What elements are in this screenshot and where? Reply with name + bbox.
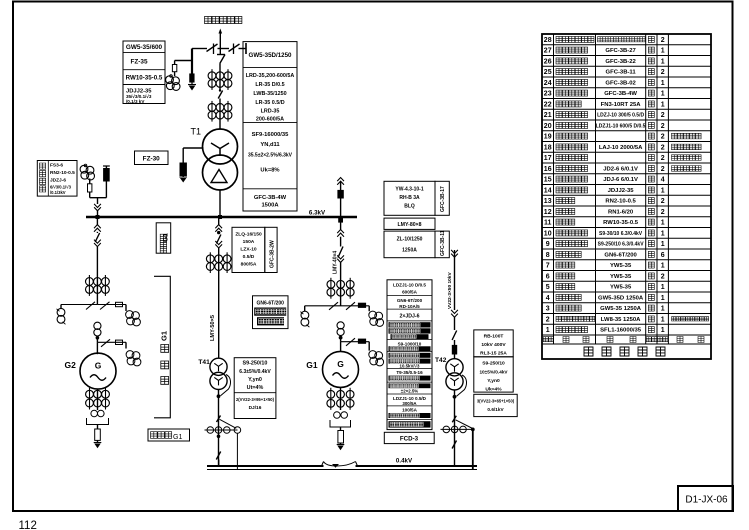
instrument circles on G1 line xyxy=(337,322,344,340)
svg-text:3: 3 xyxy=(546,306,550,313)
svg-text:S9-250/10: S9-250/10 xyxy=(243,361,268,367)
svg-text:JDZJ-6: JDZJ-6 xyxy=(50,178,66,184)
svg-text:Uk=8%: Uk=8% xyxy=(260,168,279,174)
svg-text:LMY-50×5: LMY-50×5 xyxy=(210,315,216,341)
svg-text:ZL-10/1250: ZL-10/1250 xyxy=(397,237,423,243)
arrester FS3-6 xyxy=(103,166,110,198)
svg-text:25: 25 xyxy=(544,69,552,76)
svg-text:1: 1 xyxy=(661,327,665,334)
svg-text:FS3-6: FS3-6 xyxy=(50,163,63,169)
svg-text:GFC-3B-2W: GFC-3B-2W xyxy=(270,240,276,268)
svg-text:19: 19 xyxy=(544,134,552,141)
fuse RW10-35-0.5 xyxy=(172,65,176,77)
svg-text:1: 1 xyxy=(661,220,665,227)
bracket: equipment room G1 xyxy=(154,276,170,418)
svg-text:1500A: 1500A xyxy=(261,203,279,209)
CT group LRD-35 (lower) xyxy=(208,99,232,130)
label box: YW-4.3-10-1 arrester (with GFC-3B-17 column) xyxy=(384,181,449,215)
svg-text:GFC-3B-17: GFC-3B-17 xyxy=(440,186,446,212)
svg-text:RN2-10-0.5: RN2-10-0.5 xyxy=(50,170,75,176)
label box: outgoing-line room G1 (vertical) xyxy=(156,223,171,253)
svg-text:11: 11 xyxy=(544,220,552,227)
wire: G2 branch 2 (PT right) xyxy=(97,336,141,366)
svg-text:23: 23 xyxy=(544,91,552,98)
wire: T41 secondary down to 0.4kV bus xyxy=(218,390,220,467)
voltage transformer JDJJ2-35 xyxy=(166,75,180,91)
bus 0.4kV xyxy=(207,458,477,470)
svg-text:RH-B 3A: RH-B 3A xyxy=(399,195,420,201)
svg-text:LWB-35/1250: LWB-35/1250 xyxy=(253,91,286,97)
svg-text:LMY-40×4: LMY-40×4 xyxy=(333,251,339,274)
disconnector blade on main feeder xyxy=(217,55,225,64)
svg-text:LDZJ-10 300/5 0.5/D: LDZJ-10 300/5 0.5/D xyxy=(597,113,644,119)
svg-text:2: 2 xyxy=(661,144,665,151)
svg-text:1: 1 xyxy=(661,187,665,194)
svg-text:LRD-35: LRD-35 xyxy=(261,109,280,115)
wire: G1 branch 2 xyxy=(341,336,384,366)
label box: RB-100T RL3-15 xyxy=(474,330,513,357)
svg-text:G2: G2 xyxy=(65,360,77,370)
wire: T1 to 6.3kV bus xyxy=(219,190,221,217)
svg-text:G: G xyxy=(337,359,344,369)
svg-text:SF9-16000/35: SF9-16000/35 xyxy=(252,132,290,138)
svg-text:100/5A: 100/5A xyxy=(402,408,417,413)
svg-text:YN,d11: YN,d11 xyxy=(260,142,280,148)
svg-text:GN6-6T/200: GN6-6T/200 xyxy=(256,301,284,307)
label box GN6-6T/200 xyxy=(253,296,289,329)
blade T42 xyxy=(452,331,457,346)
svg-text:LR-35 0.5/D: LR-35 0.5/D xyxy=(255,100,284,106)
arrester bay above bus at G1 xyxy=(337,178,344,218)
wire: G2 feeder from bus xyxy=(94,217,101,233)
svg-text:YW-4.3-10-1: YW-4.3-10-1 xyxy=(395,187,423,193)
svg-text:12: 12 xyxy=(544,209,552,216)
svg-text:GW5-35/600: GW5-35/600 xyxy=(126,44,163,51)
neutral CT pair G2 xyxy=(91,410,104,417)
wire: G1 feeder from bus xyxy=(337,217,344,247)
wire: branch to PT JDJJ2-35 xyxy=(175,61,192,65)
equipment table grid xyxy=(542,34,711,359)
CT row T42 lower xyxy=(441,426,475,469)
svg-text:1: 1 xyxy=(661,48,665,55)
CT group T41 xyxy=(206,252,231,357)
svg-text:2(VV22-3×95+1×50): 2(VV22-3×95+1×50) xyxy=(236,397,275,402)
svg-text:6: 6 xyxy=(661,252,665,259)
svg-text:T1: T1 xyxy=(191,127,202,137)
svg-text:S9-30/10 6.3/0.4kV: S9-30/10 6.3/0.4kV xyxy=(599,231,643,237)
svg-text:DJ/16: DJ/16 xyxy=(249,405,262,411)
svg-text:600/5A: 600/5A xyxy=(402,290,417,295)
voltage transformer G1 branch1 xyxy=(369,306,384,327)
voltage transformer G2 branch1 xyxy=(126,305,141,326)
svg-text:T9-35/0.5-16: T9-35/0.5-16 xyxy=(396,370,423,375)
CT row T41 lower xyxy=(205,427,241,470)
svg-text:35.5±2×2.5%/6.3kV: 35.5±2×2.5%/6.3kV xyxy=(248,153,293,159)
svg-text:150A: 150A xyxy=(243,239,255,245)
label box: GW5-35/600 / FZ-35 / RW10-35-0.5 / JDJJ2-35 xyxy=(123,41,165,104)
svg-text:G1: G1 xyxy=(306,360,318,370)
svg-text:18: 18 xyxy=(544,144,552,151)
svg-text:6.3±5%/0.4kV: 6.3±5%/0.4kV xyxy=(239,369,271,375)
blade T41 to 0.4kV bus xyxy=(216,452,220,467)
wire: T42 incoming 10kV cable xyxy=(451,250,458,310)
svg-text:RN1-6/20: RN1-6/20 xyxy=(608,209,634,215)
svg-text:LR-35 D/0.5: LR-35 D/0.5 xyxy=(255,82,284,88)
svg-text:FCD-3: FCD-3 xyxy=(400,436,419,443)
svg-text:13: 13 xyxy=(544,198,552,205)
svg-text:G1: G1 xyxy=(173,434,182,441)
breaker truck blade G1 xyxy=(337,247,344,280)
label box: S9-250/10 T41 data xyxy=(234,358,276,419)
fuse G1 branch1 (filled) xyxy=(358,303,365,307)
svg-text:9: 9 xyxy=(546,241,550,248)
svg-text:1: 1 xyxy=(661,295,665,302)
svg-text:FZ-35: FZ-35 xyxy=(130,59,147,66)
svg-text:YW5-35: YW5-35 xyxy=(610,274,632,280)
label box: FS3-6 / RN2-10-0.5 / JDZJ-6 xyxy=(37,161,77,197)
svg-text:SFL1-16000/35: SFL1-16000/35 xyxy=(600,328,642,334)
svg-text:2: 2 xyxy=(661,209,665,216)
svg-text:LDZJ1-10 600/5 D/0.5: LDZJ1-10 600/5 D/0.5 xyxy=(596,123,646,129)
svg-text:800/5A: 800/5A xyxy=(241,262,257,268)
svg-text:2×JDJ-6: 2×JDJ-6 xyxy=(399,314,419,320)
svg-text:JDJJ2-35: JDJJ2-35 xyxy=(608,188,635,194)
transformer T41 S9-250/10 xyxy=(210,358,231,398)
table title: main equipment list xyxy=(584,347,665,356)
svg-text:2: 2 xyxy=(661,37,665,44)
arrester FZ-30 xyxy=(179,148,203,183)
svg-text:10.5kV/√3: 10.5kV/√3 xyxy=(400,363,421,368)
svg-text:27: 27 xyxy=(544,48,552,55)
wire T42 down / blade to CT row xyxy=(452,390,472,466)
transformer T1 SF9-16000/35 xyxy=(203,129,238,190)
svg-text:2: 2 xyxy=(661,166,665,173)
svg-text:2: 2 xyxy=(661,112,665,119)
svg-text:GFC-3B-27: GFC-3B-27 xyxy=(605,48,636,54)
svg-text:22: 22 xyxy=(544,101,552,108)
svg-text:RN2-10-0.5: RN2-10-0.5 xyxy=(605,199,636,205)
svg-text:LW8-35 1250A: LW8-35 1250A xyxy=(601,317,641,323)
svg-text:2: 2 xyxy=(661,134,665,141)
svg-text:VV22-3×50 10kV: VV22-3×50 10kV xyxy=(447,272,453,309)
svg-text:LZX-10: LZX-10 xyxy=(240,247,257,253)
svg-text:GFC-3B-4W: GFC-3B-4W xyxy=(604,91,637,97)
neutral fuse G1 xyxy=(337,427,345,450)
CT group LRD-35 (upper) xyxy=(208,69,232,90)
transformer T42 S9-30/10 xyxy=(446,359,467,399)
arrester group G1 left xyxy=(300,306,309,327)
svg-text:GFC-3B-02: GFC-3B-02 xyxy=(605,80,636,86)
equipment table rows content xyxy=(544,36,709,334)
svg-text:/0.1/3 kV: /0.1/3 kV xyxy=(126,99,145,104)
generator G2 xyxy=(65,342,117,389)
wire: station transformer T41 feeder xyxy=(215,217,222,234)
svg-text:2: 2 xyxy=(661,155,665,162)
svg-text:2: 2 xyxy=(661,69,665,76)
svg-text:6/√3/0.1/√3: 6/√3/0.1/√3 xyxy=(50,185,72,190)
svg-text:YW5-35: YW5-35 xyxy=(610,263,632,269)
breaker truck blade G2 xyxy=(94,233,101,277)
label box: equipment room G1 xyxy=(148,429,190,441)
svg-text:1: 1 xyxy=(661,263,665,270)
svg-text:112: 112 xyxy=(19,520,37,530)
svg-text:300/5A: 300/5A xyxy=(402,401,417,406)
blade between CT groups xyxy=(218,89,222,98)
svg-text:D1-JX-06: D1-JX-06 xyxy=(685,495,728,506)
svg-text:21: 21 xyxy=(544,112,552,119)
arrester FZ-35 xyxy=(188,74,196,91)
svg-text:T41: T41 xyxy=(198,359,210,366)
CT group G2 upper xyxy=(86,275,110,305)
bus junction nodes xyxy=(96,215,223,219)
svg-text:10±5%/0.4kV: 10±5%/0.4kV xyxy=(479,370,508,375)
svg-text:S9-250/10: S9-250/10 xyxy=(482,361,505,367)
wire: incoming overhead line xyxy=(219,29,223,49)
svg-text:JDJ-6 6/0.1V: JDJ-6 6/0.1V xyxy=(603,177,638,183)
svg-text:10: 10 xyxy=(544,230,552,237)
svg-text:0.5/D: 0.5/D xyxy=(243,254,255,260)
svg-text:LAJ-10 2000/5A: LAJ-10 2000/5A xyxy=(599,145,643,151)
svg-text:4: 4 xyxy=(546,295,550,302)
wire: main 35kV feeder xyxy=(219,49,221,55)
svg-text:Uk=4%: Uk=4% xyxy=(485,387,502,393)
drawout contacts T42 xyxy=(451,310,458,330)
svg-text:S9-250/10 6.3/0.4kV: S9-250/10 6.3/0.4kV xyxy=(598,242,645,248)
label stack: G1 instrument list xyxy=(387,280,432,430)
svg-text:±2×2.5%: ±2×2.5% xyxy=(401,389,419,394)
wire: PT bay to bus xyxy=(90,198,107,217)
svg-text:1: 1 xyxy=(661,101,665,108)
svg-text:1: 1 xyxy=(661,241,665,248)
svg-text:Y,yn0: Y,yn0 xyxy=(487,378,500,384)
svg-text:RB-100T: RB-100T xyxy=(484,334,504,340)
svg-text:15: 15 xyxy=(544,177,552,184)
svg-text:2: 2 xyxy=(661,123,665,130)
voltage transformer JDZJ-6 with fuse xyxy=(80,164,94,198)
svg-text:1: 1 xyxy=(661,58,665,65)
svg-text:/0.1/3kV: /0.1/3kV xyxy=(50,190,66,195)
svg-text:2: 2 xyxy=(661,198,665,205)
svg-text:RW10-35-0.5: RW10-35-0.5 xyxy=(603,220,639,226)
svg-text:2: 2 xyxy=(661,273,665,280)
wire: branch to arrester FZ-35 xyxy=(191,49,193,75)
svg-text:1250A: 1250A xyxy=(402,248,417,254)
generator G1 xyxy=(306,342,358,388)
neutral CT pair G1 xyxy=(334,412,348,419)
svg-text:1: 1 xyxy=(661,284,665,291)
disconnector GW5-35D/1250 blade (right) xyxy=(229,43,247,54)
label box FCD-3 xyxy=(384,432,434,443)
svg-text:YW5-35: YW5-35 xyxy=(610,285,632,291)
CT group G2 lower (neutral) xyxy=(86,388,110,410)
svg-text:14: 14 xyxy=(544,187,552,194)
label box: ZLQ-16/150 LZX-10 xyxy=(232,227,277,272)
bus 6.3kV xyxy=(86,210,357,218)
svg-text:2: 2 xyxy=(546,316,550,323)
svg-text:5: 5 xyxy=(546,284,550,291)
neutral bracket G1 xyxy=(330,420,351,427)
svg-text:17: 17 xyxy=(544,155,552,162)
neutral fuse G2 xyxy=(94,425,102,449)
svg-text:24: 24 xyxy=(544,80,552,87)
wire: G1 branch 1 xyxy=(305,302,370,310)
svg-text:6: 6 xyxy=(546,273,550,280)
svg-text:RD-10A/5: RD-10A/5 xyxy=(399,304,420,309)
svg-text:3(VV22-3×65+1×50): 3(VV22-3×65+1×50) xyxy=(477,399,515,404)
dead-end T bar xyxy=(245,43,247,54)
svg-text:FN3-10RT 25A: FN3-10RT 25A xyxy=(601,102,642,108)
label box: ZL-10/1250 (with GFC-3B-11 column) xyxy=(384,230,449,257)
svg-text:JD2-6 6/0.1V: JD2-6 6/0.1V xyxy=(603,166,638,172)
blade T42 to 0.4kV bus xyxy=(452,441,456,449)
svg-text:7: 7 xyxy=(546,263,550,270)
svg-text:T42: T42 xyxy=(435,357,447,364)
svg-text:LMY-80×8: LMY-80×8 xyxy=(397,222,421,228)
svg-text:ZLQ-16/150: ZLQ-16/150 xyxy=(235,232,262,238)
breaker truck blade T41 xyxy=(215,235,222,255)
svg-text:GFC-3B-4W: GFC-3B-4W xyxy=(254,195,287,201)
svg-text:1: 1 xyxy=(661,230,665,237)
svg-text:GN6-6T/200: GN6-6T/200 xyxy=(604,252,637,258)
label box: LMY-80x8 xyxy=(384,218,435,229)
svg-text:GW5-35D/1250: GW5-35D/1250 xyxy=(249,52,293,59)
svg-text:RL3-15 25A: RL3-15 25A xyxy=(480,351,507,357)
neutral bracket G2 xyxy=(87,418,109,425)
svg-text:BLQ: BLQ xyxy=(404,204,415,210)
blade T41 lower xyxy=(217,416,237,429)
fuse on G2 PT branch xyxy=(116,302,123,306)
svg-text:GW5-35 1250A: GW5-35 1250A xyxy=(600,306,642,312)
svg-text:200-600/5A: 200-600/5A xyxy=(256,117,284,123)
label box FZ-30 xyxy=(135,151,169,165)
wire: top horizontal tie y=48.5 xyxy=(192,48,246,50)
svg-text:1: 1 xyxy=(661,80,665,87)
node: incoming line label (to power plant) xyxy=(205,17,242,24)
svg-text:1: 1 xyxy=(546,327,550,334)
svg-text:10kV 400V: 10kV 400V xyxy=(481,342,506,348)
svg-text:GN6-6T/200: GN6-6T/200 xyxy=(397,298,423,303)
svg-text:28: 28 xyxy=(544,37,552,44)
svg-text:16: 16 xyxy=(544,166,552,173)
svg-text:4: 4 xyxy=(661,177,665,184)
CT group G1 lower (neutral) xyxy=(327,387,354,410)
label box: GW5-35D / LRD-35 / SF9-16000/35 / GFC-3B-W xyxy=(243,42,297,211)
svg-text:GW5-35D 1250A: GW5-35D 1250A xyxy=(598,295,644,301)
wire: G2 branch 1 (arrester left / PT right) xyxy=(61,302,126,310)
svg-text:FZ-30: FZ-30 xyxy=(143,156,160,163)
svg-text:1: 1 xyxy=(661,306,665,313)
svg-text:G: G xyxy=(95,361,102,371)
svg-text:GFC-3B-11: GFC-3B-11 xyxy=(606,70,637,76)
CT group G1 upper xyxy=(327,278,354,306)
svg-text:1: 1 xyxy=(661,91,665,98)
instrument circles on G2 line xyxy=(94,322,101,339)
svg-text:20: 20 xyxy=(544,123,552,130)
svg-text:RW10-35-0.5: RW10-35-0.5 xyxy=(126,75,163,82)
label box: cable 3(VV22...) xyxy=(474,394,517,416)
svg-text:LDZJ1-10 D/0.5: LDZJ1-10 D/0.5 xyxy=(393,283,426,288)
svg-text:S9-1000/10: S9-1000/10 xyxy=(398,341,422,346)
svg-text:G1: G1 xyxy=(160,331,169,341)
svg-text:Ut=4%: Ut=4% xyxy=(247,385,264,391)
svg-text:GFC-3B-11: GFC-3B-11 xyxy=(440,230,446,256)
bus-section jumper on 0.4kV bus xyxy=(322,462,358,468)
disconnector GW5-35/600 blade (left) xyxy=(207,44,218,55)
svg-text:8: 8 xyxy=(546,252,550,259)
svg-text:LRD-35,200-600/5A: LRD-35,200-600/5A xyxy=(246,73,295,79)
equipment table header row xyxy=(543,337,704,343)
svg-text:6.3kV: 6.3kV xyxy=(309,210,326,217)
svg-text:GFC-3B-22: GFC-3B-22 xyxy=(605,59,636,65)
svg-text:0.6/1kV: 0.6/1kV xyxy=(487,407,504,412)
title block D1-JX-06 xyxy=(678,486,733,511)
fuse T42 (filled) xyxy=(452,345,456,358)
svg-text:Y,yn0: Y,yn0 xyxy=(248,377,262,383)
svg-text:1: 1 xyxy=(661,316,665,323)
arrester group G2 left xyxy=(57,305,66,325)
svg-text:0.4kV: 0.4kV xyxy=(396,458,413,465)
label box: S9-30/10 T42 data xyxy=(474,357,513,393)
svg-text:26: 26 xyxy=(544,58,552,65)
